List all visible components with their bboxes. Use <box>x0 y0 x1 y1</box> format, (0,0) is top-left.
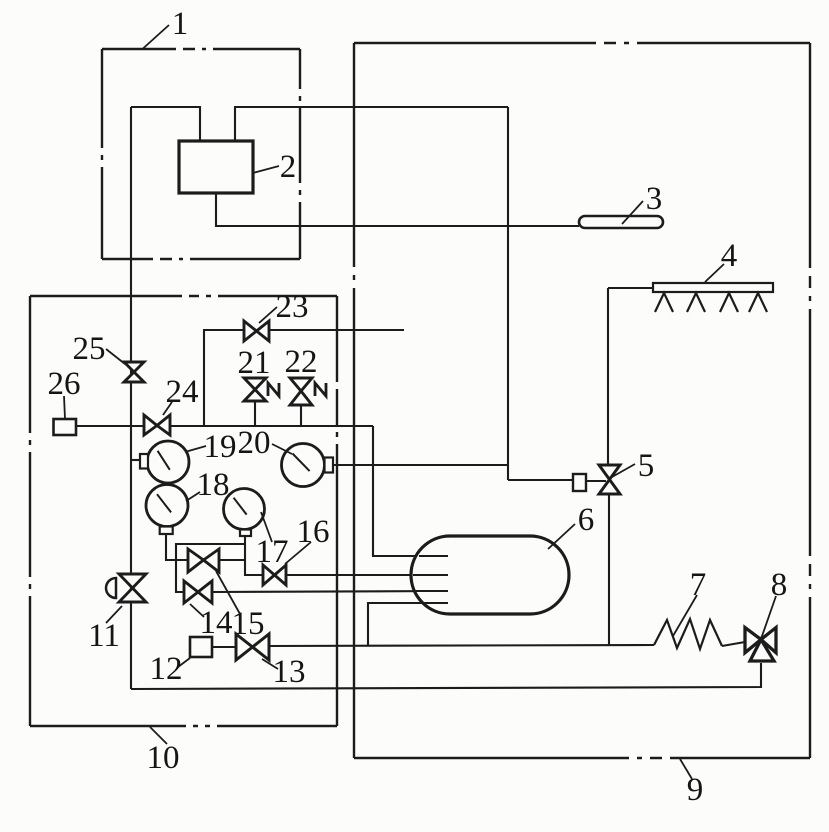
pressure gauge 17 <box>224 489 265 530</box>
wire: gauge 17 bottom square down to valve 16 elbow <box>245 536 263 575</box>
leader line for label 15 <box>216 571 240 614</box>
solenoid valve 22 (vertical bowtie) <box>290 378 312 405</box>
wire: valve 15 right port into x245 drop <box>219 559 245 561</box>
wire: tank lower feed dip tube inside vessel <box>413 590 448 592</box>
gauge 20 side square <box>325 458 334 473</box>
leader line for label 6 <box>548 524 575 549</box>
control box 2 <box>179 141 253 193</box>
end device box 26 <box>54 419 77 435</box>
valve 16 (horizontal bowtie) <box>263 565 286 585</box>
wire: branch from x245 drop left then down to valve 14 <box>176 544 245 592</box>
leader line for label 19 <box>185 446 206 452</box>
leader line for label 4 <box>705 264 724 282</box>
wire: riser x373 down to tank 6 top-left port <box>373 426 448 556</box>
svg-text:21: 21 <box>238 345 271 381</box>
svg-text:3: 3 <box>646 181 663 217</box>
svg-text:12: 12 <box>150 651 183 687</box>
svg-text:2: 2 <box>280 149 297 185</box>
wire: solenoid valve 21 stub to supply line <box>254 401 256 426</box>
wire: box 2 top-right pin up and right to vertical drop at x508 <box>235 107 508 141</box>
spring / sinuous element 7 <box>654 619 722 649</box>
svg-text:13: 13 <box>273 654 306 690</box>
leader line for label 24 <box>163 402 172 415</box>
svg-text:11: 11 <box>88 618 120 654</box>
wire: tank middle feed dip tube inside vessel <box>413 574 448 576</box>
svg-text:6: 6 <box>578 502 595 538</box>
wire: branch to valve 5 actuator square <box>508 479 573 481</box>
wire: valve 23 branch line and drop to supply line <box>204 330 404 426</box>
wire: riser x608 from nozzle down to valve 5 top <box>607 288 609 465</box>
gauge 19 side square <box>140 454 148 469</box>
solenoid valve 21 (vertical bowtie) <box>244 378 266 401</box>
gauge 17 needle <box>234 498 247 515</box>
spray cone under nozzle bar (3) <box>720 293 738 312</box>
gauge 18 needle <box>157 494 171 512</box>
spray cone under nozzle bar (2) <box>687 293 705 312</box>
wire: vertical drop x508 down to valve 5 branch <box>507 107 509 480</box>
valve 25 (vertical bowtie on x131 line) <box>124 362 144 382</box>
wire: tank bottom outlet dip tube inside vessel <box>417 602 448 604</box>
svg-text:16: 16 <box>297 514 330 550</box>
gauge 17 bottom square <box>240 530 251 537</box>
valve 23 (horizontal bowtie) <box>244 321 269 341</box>
wire: tank top-left feed dip tube inside vessel <box>419 555 448 557</box>
nozzle manifold bar 4 <box>653 283 773 292</box>
sensor tube 3 <box>579 216 663 228</box>
wire: gauge 19 square stub to x131 line <box>131 459 141 461</box>
leader line for label 18 <box>186 492 200 501</box>
leader line for label 16 <box>285 542 311 564</box>
leader line for label 13 <box>262 659 278 669</box>
solenoid valve 21 coil symbol N <box>268 383 279 396</box>
svg-text:5: 5 <box>638 448 655 484</box>
leader line for label 5 <box>612 464 635 477</box>
svg-text:22: 22 <box>285 344 318 380</box>
wire: gauge 18 bottom square down and right to valve 15 <box>166 534 188 560</box>
svg-text:23: 23 <box>276 289 309 325</box>
leader line for label 23 <box>259 307 277 323</box>
wire: top link from vertical line to box 2 top-left pin <box>131 107 200 141</box>
leader line for label 17 <box>261 512 272 542</box>
spray cone under nozzle bar (4) <box>749 293 767 312</box>
pressure gauge 18 <box>146 485 188 527</box>
solenoid valve 22 coil symbol N <box>315 383 326 396</box>
svg-text:8: 8 <box>771 567 788 603</box>
svg-text:4: 4 <box>721 238 738 274</box>
end device box 12 <box>190 637 212 657</box>
svg-text:15: 15 <box>232 606 265 642</box>
leader line for label 8 <box>761 596 776 639</box>
svg-text:26: 26 <box>48 366 81 402</box>
leader line for label 12 <box>178 658 190 667</box>
wire: bottom manifold from valve 13 right to spring 7 <box>269 645 654 646</box>
svg-text:20: 20 <box>238 425 271 461</box>
pressure gauge 19 <box>147 441 189 483</box>
svg-text:9: 9 <box>687 772 704 808</box>
storage tank 6 <box>411 536 569 614</box>
leader line for label 1 <box>143 25 169 49</box>
leader line for label 2 <box>253 166 279 173</box>
leader line for label 3 <box>622 201 643 224</box>
valve 24 (horizontal bowtie) <box>144 415 170 435</box>
valve 13 (horizontal bowtie) <box>236 634 269 660</box>
enclosure box 1 (dash-dot frame) <box>102 49 300 259</box>
wire: valve 8 bottom port down then long return line left to x131 bus <box>131 663 761 689</box>
valve 5 (vertical bowtie) <box>599 465 620 494</box>
wire: tank 6 bottom outlet elbow down to manifold <box>368 603 448 645</box>
leader line for label 14 <box>190 604 204 617</box>
wire: valve 5 bottom down to bottom manifold line <box>608 494 610 645</box>
valve 5 actuator square <box>573 474 586 491</box>
valve 14 (horizontal bowtie lower) <box>184 581 212 603</box>
valve 11 (vertical bowtie with actuator cap) <box>119 574 146 602</box>
wire: nozzle bar 4 left end to vertical riser x608 <box>608 287 654 289</box>
wire: box 2 bottom pin down then right to sensor 3 <box>216 193 579 226</box>
enclosure box 10 (dash-dot frame) <box>30 296 337 726</box>
gauge 19 needle <box>158 451 170 470</box>
leader line for label 11 <box>106 606 122 623</box>
leader line for label 7 <box>673 595 697 636</box>
svg-text:25: 25 <box>73 331 106 367</box>
svg-text:18: 18 <box>197 467 230 503</box>
gauge 20 needle <box>293 454 310 472</box>
wire: actuator square to valve 5 body <box>586 480 606 482</box>
leader line for label 26 <box>64 396 65 419</box>
valve 11 actuator half-circle <box>106 578 116 598</box>
wire: vertical control line from node at y107 down through valves 25 and 11 to bottom bus <box>130 107 132 689</box>
wire: supply line y426 from box 26 through valve 24 to tank riser <box>76 425 373 427</box>
svg-text:10: 10 <box>147 740 180 776</box>
leader line for label 9 <box>680 759 692 779</box>
leader line for label 20 <box>272 444 292 454</box>
valve 15 (horizontal bowtie upper) <box>188 549 219 572</box>
wire: solenoid valve 22 stub to supply line <box>300 405 302 426</box>
wire: box 12 to valve 13 <box>212 646 236 648</box>
svg-text:14: 14 <box>200 605 233 641</box>
leader line for label 10 <box>150 727 167 744</box>
gauge 18 bottom square <box>160 527 173 535</box>
leader line for label 25 <box>106 349 125 364</box>
svg-text:7: 7 <box>690 567 707 603</box>
wire: from gauge 20 right square to vertical drop x508 <box>333 464 508 466</box>
svg-text:17: 17 <box>256 534 289 570</box>
wire: valve 14 right port long line into tank 6 (bottom feed) <box>212 591 448 592</box>
wire: valve 16 right port line into tank 6 (middle feed) <box>286 574 448 576</box>
svg-text:24: 24 <box>166 374 199 410</box>
wire: spring 7 right end to valve 8 <box>722 642 745 646</box>
svg-text:1: 1 <box>172 6 189 42</box>
valve 8 (three-way valve) <box>745 628 776 662</box>
svg-text:19: 19 <box>204 429 237 465</box>
pressure gauge 20 <box>282 444 325 487</box>
spray cone under nozzle bar (1) <box>655 293 673 312</box>
enclosure box 9 (dash-dot frame) <box>354 43 810 758</box>
